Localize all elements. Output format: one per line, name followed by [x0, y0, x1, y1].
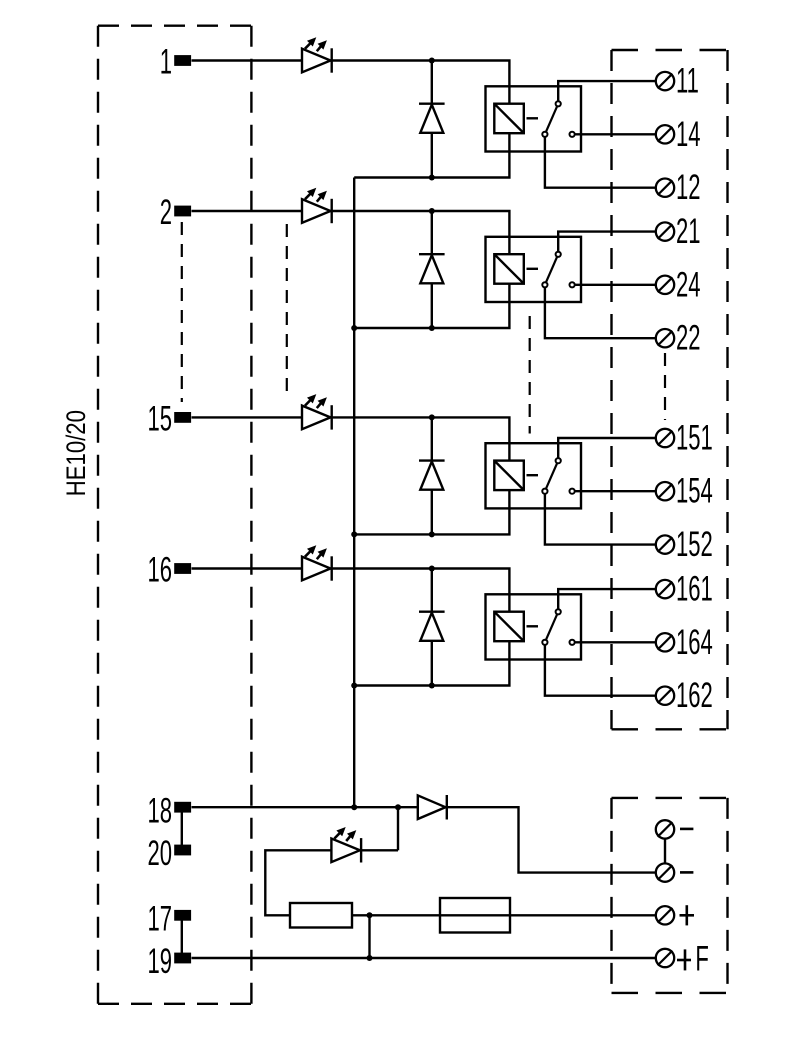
- label 151: [676, 420, 713, 458]
- wire resistor R1 to terminal plus: [352, 914, 655, 916]
- pin 2 label: [160, 194, 172, 232]
- terminal 22: [656, 329, 674, 347]
- diode D1 (freewheel): [419, 61, 445, 178]
- svg-text:HE10/20: HE10/20: [62, 410, 92, 496]
- label 24: [676, 266, 701, 304]
- wire LED4 to relay K4 coil: [332, 569, 510, 612]
- pin 2 terminal: [174, 206, 191, 217]
- LED3: [302, 394, 332, 430]
- junction node D2 cathode / return: [429, 325, 435, 331]
- terminal 151: [656, 429, 674, 447]
- dashed continuation (circuits omitted): [286, 224, 288, 400]
- wire contact to terminal 24: [572, 284, 655, 286]
- label 152: [676, 526, 713, 564]
- pin 20 terminal: [174, 845, 191, 856]
- svg-text:F: F: [695, 940, 708, 978]
- svg-text:24: 24: [676, 266, 701, 304]
- junction node return / bus: [351, 683, 357, 689]
- svg-text:18: 18: [147, 792, 172, 830]
- terminal 14: [656, 125, 674, 143]
- wire contact to terminal 151: [558, 438, 655, 461]
- pin 1 terminal: [174, 55, 191, 66]
- wire relay K1 coil return to bus: [354, 133, 509, 177]
- wire pin 2 to LED2: [192, 210, 303, 212]
- LED1: [302, 37, 332, 72]
- pin 17 terminal: [174, 910, 191, 921]
- svg-text:16: 16: [147, 552, 172, 590]
- terminal 164: [656, 633, 674, 651]
- svg-text:20: 20: [147, 835, 172, 873]
- svg-text:21: 21: [676, 213, 701, 251]
- wire contact to terminal 164: [572, 641, 655, 643]
- pin 18 label: [147, 792, 172, 830]
- wire contact to terminal 14: [572, 133, 655, 135]
- wire diode D5 to terminal minus: [447, 807, 656, 872]
- wire LED1 to relay K1 coil: [332, 61, 510, 104]
- relay K3: [486, 443, 582, 508]
- svg-text:11: 11: [676, 63, 699, 101]
- wire contact to terminal 12: [545, 134, 655, 187]
- terminal 162: [656, 687, 674, 705]
- terminal 161: [656, 580, 674, 598]
- connector X1 dashed outline: [98, 26, 251, 1004]
- wire link plus to plus-F row: [368, 915, 370, 958]
- svg-text:162: 162: [676, 677, 713, 715]
- wire contact to terminal 154: [572, 490, 655, 492]
- LED2: [302, 188, 332, 224]
- relay K1: [486, 86, 582, 151]
- junction node return / bus: [351, 531, 357, 537]
- terminal 154: [656, 482, 674, 500]
- pin 17 label: [147, 900, 172, 938]
- wire contact to terminal 152: [545, 491, 655, 544]
- svg-text:19: 19: [147, 943, 172, 981]
- junction node D4 cathode / return: [429, 683, 435, 689]
- wire contact to terminal 162: [545, 642, 655, 695]
- junction node LED5 branch: [395, 804, 401, 810]
- terminal 11: [656, 72, 674, 90]
- dashed continuation (terminals omitted): [664, 353, 666, 420]
- diode D4 (freewheel): [419, 569, 445, 686]
- wire LED3 to relay K3 coil: [332, 417, 510, 460]
- wire link pin 17 to pin 19: [181, 915, 183, 958]
- negative bus wire: [353, 178, 355, 808]
- junction node +F link / pin 19: [367, 955, 373, 961]
- terminal plus: [656, 906, 674, 924]
- fuse F1: [440, 898, 510, 933]
- label 162: [676, 677, 713, 715]
- wire pin 1 to LED1: [192, 59, 303, 61]
- svg-text:161: 161: [676, 571, 713, 609]
- label minus (lower): [680, 871, 693, 874]
- terminal 24: [656, 276, 674, 294]
- label 14: [676, 116, 701, 154]
- svg-text:154: 154: [676, 473, 713, 511]
- resistor R1: [290, 903, 352, 928]
- junction node pin 16 / D4 anode: [429, 566, 435, 572]
- label 154: [676, 473, 713, 511]
- label plus-F: [677, 940, 709, 978]
- dashed continuation (pins 3..14 omitted): [181, 222, 183, 402]
- terminal plus-F: [656, 949, 674, 967]
- svg-text:151: 151: [676, 420, 713, 458]
- wire contact to terminal 21: [558, 232, 655, 255]
- junction node R1 / +F link: [367, 912, 373, 918]
- diode D3 (freewheel): [419, 417, 445, 534]
- wire contact to terminal 11: [558, 81, 655, 104]
- terminal 21: [656, 222, 674, 240]
- junction node pin 1 / D1 anode: [429, 58, 435, 64]
- junction node pin 15 / D3 anode: [429, 414, 435, 420]
- wire contact to terminal 161: [558, 589, 655, 612]
- label 22: [676, 320, 701, 358]
- pin 16 terminal: [174, 563, 191, 574]
- svg-text:22: 22: [676, 320, 701, 358]
- svg-text:2: 2: [160, 194, 172, 232]
- label 164: [676, 624, 713, 662]
- relay K4: [486, 594, 582, 659]
- pin 1 label: [160, 44, 172, 82]
- svg-text:12: 12: [676, 169, 701, 207]
- junction node D1 cathode / return: [429, 175, 435, 181]
- terminal minus (lower): [656, 863, 674, 881]
- wire LED5 anode: [265, 850, 331, 915]
- diode D5: [418, 795, 447, 820]
- wire link pin 18 to pin 20: [181, 807, 183, 850]
- junction node pin 2 / D2 anode: [429, 208, 435, 214]
- pin 20 label: [147, 835, 172, 873]
- wire contact to terminal 22: [545, 285, 655, 338]
- label 11: [676, 63, 699, 101]
- label plus: [680, 905, 695, 925]
- label 21: [676, 213, 701, 251]
- svg-text:15: 15: [147, 400, 172, 438]
- wire relay K2 coil return to bus: [354, 284, 509, 328]
- junction node bus / pin 18: [351, 804, 357, 810]
- pin 15 label: [147, 400, 172, 438]
- relay K2: [486, 237, 582, 302]
- wire link terminal minus to terminal minus: [664, 829, 666, 872]
- pin 15 terminal: [174, 412, 191, 423]
- wire relay K4 coil return to bus: [354, 641, 509, 685]
- svg-text:152: 152: [676, 526, 713, 564]
- pin 19 terminal: [174, 953, 191, 964]
- LED5: [331, 827, 361, 863]
- junction node D3 cathode / return: [429, 531, 435, 537]
- terminal 12: [656, 179, 674, 197]
- dashed continuation (relays omitted): [529, 316, 531, 434]
- diode D2 (freewheel): [419, 211, 445, 328]
- wire pin 19 to terminal plus-F: [192, 957, 656, 959]
- terminal block X3 dashed outline (bottom): [612, 798, 728, 993]
- wire pin 18 to diode D5: [192, 806, 418, 808]
- pin 19 label: [147, 943, 172, 981]
- wire LED2 to relay K2 coil: [332, 211, 510, 254]
- wire relay K3 coil return to bus: [354, 490, 509, 534]
- wire LED5 branch down: [397, 807, 399, 850]
- label 161: [676, 571, 713, 609]
- LED4: [302, 545, 332, 581]
- wire LED5 cathode to branch: [361, 849, 398, 851]
- terminal minus (upper): [656, 820, 674, 838]
- svg-text:14: 14: [676, 116, 701, 154]
- svg-text:17: 17: [147, 900, 172, 938]
- label HE10/20: [62, 410, 92, 496]
- label 12: [676, 169, 701, 207]
- terminal block X2 dashed outline (top): [612, 50, 728, 729]
- pin 18 terminal: [174, 802, 191, 813]
- wire pin 16 to LED4: [192, 567, 303, 569]
- wire pin 15 to LED3: [192, 416, 303, 418]
- pin 16 label: [147, 552, 172, 590]
- junction node return / bus: [351, 325, 357, 331]
- label minus (upper): [680, 828, 693, 831]
- svg-text:1: 1: [160, 44, 172, 82]
- terminal 152: [656, 535, 674, 553]
- svg-text:164: 164: [676, 624, 713, 662]
